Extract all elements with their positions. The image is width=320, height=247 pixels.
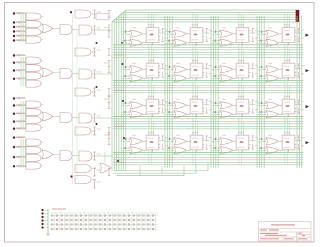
diode D11	[52, 214, 54, 216]
junction	[214, 40, 216, 42]
junction	[124, 111, 126, 113]
wire clock drop	[240, 120, 242, 135]
wire bus row	[113, 161, 303, 163]
wire bus column	[258, 16, 260, 168]
label	[192, 38, 199, 41]
wire	[233, 149, 236, 151]
pin	[150, 25, 152, 28]
wire	[211, 102, 220, 104]
pin	[159, 147, 161, 149]
wire	[50, 212, 158, 214]
wire	[284, 114, 286, 130]
diode D211	[100, 219, 102, 221]
wire bus	[22, 139, 24, 168]
diode D418	[133, 228, 135, 230]
and-gate U1B	[26, 21, 41, 28]
label	[194, 69, 198, 71]
net tag mark	[93, 187, 96, 189]
pin	[240, 60, 242, 63]
net tag	[252, 108, 254, 113]
wire bus column	[166, 16, 168, 168]
label	[284, 146, 291, 149]
junction	[261, 31, 263, 33]
label	[104, 135, 108, 136]
label	[176, 135, 180, 136]
wire clock drop	[240, 14, 242, 28]
or-gate U3E	[42, 112, 53, 121]
wire clock drop	[192, 119, 194, 136]
wire bus bend	[112, 10, 126, 22]
net tag	[94, 180, 96, 188]
net tag	[252, 72, 254, 77]
diode D26	[76, 219, 78, 221]
wire	[257, 105, 266, 107]
diode D120	[143, 214, 145, 216]
net tag mark	[108, 48, 111, 50]
label	[148, 74, 155, 77]
wire clock drop	[192, 47, 194, 64]
node P3	[41, 219, 43, 221]
pin	[281, 140, 283, 142]
pin tick	[264, 75, 266, 77]
wire	[44, 227, 49, 229]
label	[284, 60, 290, 61]
wire bus	[24, 139, 26, 168]
pin	[235, 113, 237, 115]
pin	[197, 25, 199, 28]
net tag mark	[108, 168, 111, 170]
off-page arrow OUT2	[306, 69, 310, 72]
net tag mark	[93, 87, 96, 89]
pin	[152, 78, 154, 81]
wire	[211, 111, 220, 113]
junction	[261, 138, 263, 140]
pin	[242, 78, 244, 81]
wire	[72, 29, 79, 31]
wire	[279, 149, 282, 151]
pin	[194, 96, 196, 99]
pin	[289, 60, 291, 63]
or-gate U4E	[42, 150, 53, 159]
wire bus	[22, 13, 24, 42]
label IN1_5	[16, 39, 25, 40]
wire	[211, 147, 220, 149]
pin	[203, 111, 205, 113]
wire bus bottom bend	[207, 162, 209, 171]
bus label	[114, 90, 124, 91]
net tag	[94, 70, 96, 78]
label	[255, 64, 259, 67]
pin tick	[128, 102, 130, 104]
diode D318	[133, 223, 135, 225]
pin	[197, 60, 199, 63]
junction cross	[18, 22, 20, 24]
wire	[211, 78, 220, 80]
and-gate M4	[75, 127, 91, 135]
junction cross	[18, 55, 20, 57]
net tag mark	[93, 17, 96, 19]
pin	[238, 132, 240, 135]
diode D216	[124, 219, 126, 221]
diode D410	[95, 228, 97, 230]
pin	[189, 113, 191, 115]
label	[209, 136, 213, 139]
label	[176, 99, 180, 100]
wire	[91, 130, 96, 132]
junction	[125, 31, 127, 33]
wire	[295, 104, 302, 106]
pin	[145, 42, 147, 44]
wire	[72, 155, 79, 157]
wire	[53, 154, 60, 156]
pin	[235, 140, 237, 142]
net tag mark	[93, 151, 96, 153]
net tag mark	[252, 99, 254, 101]
label	[194, 34, 198, 36]
wire	[233, 104, 236, 106]
pin	[249, 39, 251, 41]
node IN1_0	[13, 12, 15, 14]
xor-gate X44	[266, 138, 279, 145]
pin tick	[264, 141, 266, 143]
pin	[240, 132, 242, 135]
wire array column	[107, 214, 109, 231]
net tag mark	[93, 175, 96, 177]
pin	[153, 60, 155, 63]
label	[209, 37, 213, 40]
or-gate U1E	[42, 24, 53, 33]
ground	[47, 234, 49, 236]
label	[240, 34, 244, 36]
label	[240, 141, 244, 143]
wire bus row	[113, 123, 303, 125]
wire	[165, 78, 174, 80]
junction cross	[18, 121, 20, 123]
xor-gate X11	[130, 30, 143, 37]
net tag mark	[108, 72, 111, 74]
wire bus	[24, 57, 26, 86]
wire	[159, 140, 166, 142]
diode D421	[148, 228, 150, 230]
wire	[41, 111, 43, 113]
wire	[257, 78, 266, 80]
or-gate O42	[174, 147, 187, 154]
off-page arrow OUT4	[306, 141, 310, 144]
pin	[203, 65, 205, 67]
wire	[286, 150, 288, 166]
wire	[143, 104, 146, 106]
title block line	[296, 232, 298, 241]
wire	[148, 150, 150, 166]
net tag mark	[298, 63, 300, 65]
wire array column	[54, 214, 56, 231]
wire	[233, 42, 236, 44]
pin	[203, 30, 205, 32]
pin	[194, 25, 196, 28]
wire	[279, 113, 282, 115]
label	[165, 72, 169, 75]
wire	[148, 114, 150, 130]
net tag mark	[206, 112, 208, 114]
diode D315	[119, 223, 121, 225]
diode D115	[119, 214, 121, 216]
label	[97, 170, 102, 171]
wire	[211, 31, 220, 33]
label	[268, 63, 272, 64]
wire clock drop	[240, 48, 242, 63]
wire array column	[83, 214, 85, 231]
net tag mark	[93, 121, 96, 123]
label	[238, 137, 245, 140]
diode D420	[143, 228, 145, 230]
wire bus row	[113, 118, 303, 120]
and-gate M6	[75, 176, 91, 184]
label	[284, 74, 291, 77]
net tag mark	[108, 138, 111, 140]
net tag mark	[108, 66, 111, 68]
pin	[235, 104, 237, 106]
label IN1_3	[16, 30, 25, 31]
net tag mark	[162, 76, 164, 78]
wire array column	[145, 214, 147, 231]
diode D44	[66, 228, 68, 230]
and-gate U4C	[26, 154, 41, 161]
junction cross	[18, 156, 20, 158]
or-gate O34	[266, 111, 279, 118]
node P1	[41, 212, 43, 214]
wire clock drop	[284, 47, 286, 64]
diode D114	[114, 214, 116, 216]
diode D37	[80, 223, 82, 225]
wire	[249, 140, 256, 142]
wire array column	[87, 214, 89, 231]
diode D412	[104, 228, 106, 230]
pin	[284, 132, 286, 135]
pin	[295, 137, 297, 139]
wire bus row	[113, 54, 303, 56]
net tag	[206, 36, 208, 41]
wire	[121, 69, 130, 71]
net tag	[252, 64, 254, 69]
label	[209, 64, 213, 67]
wire	[249, 68, 256, 70]
or-gate O14	[266, 39, 279, 46]
wire bus row	[113, 164, 303, 166]
or-gate O41	[130, 147, 143, 154]
diode D24	[66, 219, 68, 221]
junction	[96, 86, 98, 88]
net tag mark	[93, 47, 96, 49]
net tag mark	[93, 25, 96, 27]
wire array column	[140, 214, 142, 231]
net tag mark	[108, 134, 111, 136]
junction cross	[18, 26, 20, 28]
net tag mark	[298, 148, 300, 150]
label	[238, 110, 245, 113]
pin	[159, 111, 161, 113]
label	[284, 96, 290, 97]
wire	[91, 13, 96, 15]
wire bus row	[113, 49, 303, 51]
net tag	[108, 49, 110, 56]
net tag mark	[93, 179, 96, 181]
label	[209, 108, 213, 111]
pin	[192, 60, 194, 63]
label	[222, 63, 226, 64]
junction	[168, 147, 170, 149]
net tag mark	[298, 76, 300, 78]
title text	[260, 229, 267, 230]
net tag	[252, 144, 254, 149]
wire bus	[20, 101, 22, 130]
label	[132, 27, 136, 28]
wire clock drop	[150, 120, 152, 135]
net tag mark	[93, 134, 96, 136]
flip-flop FF41	[146, 135, 159, 150]
label	[132, 135, 136, 136]
wire	[41, 104, 43, 106]
net tag mark	[108, 127, 111, 129]
wire	[279, 77, 282, 79]
label	[238, 74, 245, 77]
flip-flop FF13	[236, 28, 249, 43]
label	[284, 29, 291, 32]
wire bus	[24, 13, 26, 42]
flip-flop FF32	[190, 99, 203, 114]
wire bus row	[113, 159, 303, 161]
net tag	[108, 89, 110, 96]
wire clock drop	[148, 12, 150, 28]
pin	[203, 137, 205, 139]
diode D312	[104, 223, 106, 225]
pin	[238, 25, 240, 28]
net tag mark	[108, 55, 111, 57]
wire bus row	[113, 156, 303, 158]
and-gate U4B	[26, 147, 41, 154]
wire array column	[111, 214, 113, 231]
net tag	[252, 100, 254, 105]
wire	[257, 33, 266, 35]
pin	[159, 101, 161, 103]
pin	[145, 104, 147, 106]
label IN1_2	[16, 26, 25, 27]
wire	[15, 40, 26, 42]
wire	[211, 40, 220, 42]
array title	[52, 208, 66, 209]
flip-flop FF12	[190, 28, 203, 43]
pin	[281, 113, 283, 115]
net tag mark	[162, 27, 164, 29]
net tag	[108, 11, 110, 18]
label	[301, 64, 305, 67]
label IN4_0	[16, 136, 25, 137]
wire	[203, 104, 210, 106]
diode D113	[109, 214, 111, 216]
net tag mark	[298, 112, 300, 114]
xor-gate X32	[174, 102, 187, 109]
junction cross	[18, 137, 20, 139]
pin	[249, 147, 251, 149]
junction cross	[18, 70, 20, 72]
node IN4_1	[13, 146, 15, 148]
pin tick	[128, 69, 130, 71]
ground	[46, 233, 49, 235]
wire	[211, 138, 220, 140]
diode D27	[80, 219, 82, 221]
pin	[249, 111, 251, 113]
wire	[15, 146, 26, 148]
pin tick	[172, 147, 174, 149]
off-page arrow OUT3	[306, 105, 310, 108]
pin	[295, 65, 297, 67]
net tag mark	[108, 36, 111, 38]
net tag mark	[206, 63, 208, 65]
wire	[92, 117, 113, 119]
or-gate O31	[130, 111, 143, 118]
wire clock drop	[150, 14, 152, 28]
wire	[44, 209, 49, 211]
pin	[249, 30, 251, 32]
pin	[286, 96, 288, 99]
label	[268, 27, 272, 28]
label	[192, 137, 199, 140]
pin tick	[172, 102, 174, 104]
pin	[243, 96, 245, 99]
xor-gate X42	[174, 138, 187, 145]
net tag	[252, 36, 254, 41]
wire	[165, 114, 174, 116]
diode D416	[124, 228, 126, 230]
wire array column	[150, 214, 152, 231]
label	[240, 69, 244, 71]
junction	[261, 66, 263, 68]
wire clock drop	[194, 14, 196, 28]
pin	[295, 111, 297, 113]
wire	[143, 68, 146, 70]
label	[148, 29, 155, 32]
label	[238, 101, 245, 104]
wire	[72, 73, 79, 75]
net tag mark	[108, 17, 111, 19]
wire	[165, 105, 174, 107]
node IN3_2	[13, 113, 15, 115]
wire array row	[50, 228, 158, 230]
or-gate O21	[130, 75, 143, 82]
diode D14	[66, 214, 68, 216]
or-gate O32	[174, 111, 187, 118]
diode D320	[143, 223, 145, 225]
junction cross	[18, 128, 20, 130]
flip-flop FF23	[236, 63, 249, 78]
net tag	[298, 108, 300, 113]
label	[194, 105, 198, 107]
wire	[279, 42, 282, 44]
net tag mark	[162, 41, 164, 43]
label	[255, 72, 259, 75]
pin	[159, 107, 161, 109]
flip-flop FF24	[282, 63, 295, 78]
net tag mark	[162, 63, 164, 65]
diode D15	[71, 214, 73, 216]
wire clock drop	[192, 12, 194, 28]
wire	[240, 114, 242, 130]
pin	[286, 60, 288, 63]
junction cross	[18, 113, 20, 115]
net tag	[298, 28, 300, 33]
pin	[243, 60, 245, 63]
wire	[72, 14, 74, 184]
title text	[284, 238, 294, 239]
